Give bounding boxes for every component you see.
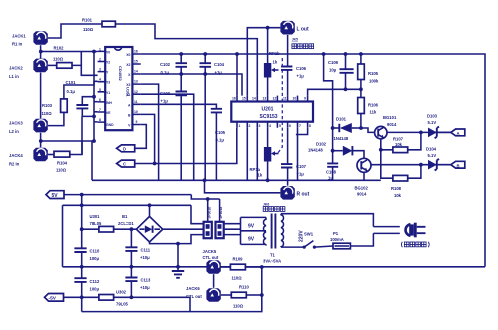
- svg-text:100mA: 100mA: [330, 237, 344, 242]
- svg-text:CTL out: CTL out: [186, 294, 202, 299]
- node RP1a bottom: [266, 178, 270, 182]
- svg-text:9V: 9V: [248, 237, 255, 243]
- wire jack6 to R110: [221, 294, 232, 296]
- U101 pin names left: [106, 50, 114, 127]
- wire jack5 to R109: [221, 266, 231, 268]
- svg-text:C107: C107: [296, 164, 307, 169]
- wire BG101 emitter down to R107: [381, 139, 388, 150]
- net tag B: [451, 161, 465, 168]
- node ground rail cross: [176, 265, 180, 269]
- svg-text:R108: R108: [391, 186, 402, 191]
- svg-text:R106: R106: [368, 103, 379, 108]
- wire frame down to connector top pin: [191, 205, 204, 223]
- resistor R102: [57, 63, 72, 69]
- svg-text:11: 11: [134, 100, 138, 104]
- svg-text:10μ: 10μ: [329, 68, 337, 73]
- svg-text:3: 3: [259, 124, 261, 128]
- svg-text:BG102: BG102: [355, 186, 369, 191]
- svg-text:10: 10: [134, 110, 138, 114]
- transformer T1 core: [272, 214, 276, 249]
- zener D103 5.1V: [427, 114, 451, 139]
- svg-text:10: 10: [293, 97, 297, 101]
- svg-text:110Ω: 110Ω: [83, 27, 94, 32]
- wire C104 column down: [204, 74, 206, 180]
- capacitor C104: [200, 54, 225, 75]
- capacitor C110: [74, 248, 100, 261]
- wire jack1 to R101: [48, 24, 102, 38]
- svg-text:5: 5: [279, 124, 281, 128]
- wire top rail to U201 pin16: [236, 54, 238, 96]
- node B row junction: [419, 163, 423, 167]
- node C104 top: [203, 52, 207, 56]
- net tag D: [117, 145, 135, 152]
- wire primary bottom to switch: [281, 246, 304, 248]
- wire psu frame left edge: [62, 205, 64, 266]
- svg-text:X2: X2: [126, 63, 130, 67]
- wire bottom rail full: [63, 266, 486, 268]
- wire BG102 collector to B row: [371, 164, 451, 166]
- node ground tap: [176, 242, 180, 246]
- U201 top pin numbers: [232, 97, 306, 101]
- svg-text:A: A: [457, 131, 460, 136]
- svg-text:L2 in: L2 in: [9, 129, 19, 134]
- wire top rail +V: [141, 54, 485, 267]
- wire branch up to U101 pin10: [141, 114, 155, 163]
- svg-text:9V: 9V: [248, 224, 255, 230]
- resistor R110: [231, 285, 261, 309]
- capacitor C107: [281, 128, 307, 186]
- svg-text:R out: R out: [297, 192, 310, 198]
- svg-text:0.1μ: 0.1μ: [67, 89, 76, 94]
- svg-text:R107: R107: [393, 137, 404, 142]
- wire U201 pin8 stub down: [296, 128, 308, 135]
- svg-text:R104: R104: [57, 161, 68, 166]
- U201 top pin stubs: [237, 96, 308, 102]
- wire drop to JP301a: [219, 199, 221, 222]
- U101 pin numbers right: [134, 50, 138, 125]
- svg-text:X0: X0: [126, 53, 130, 57]
- svg-text:16: 16: [232, 97, 236, 101]
- capacitor C108: [326, 163, 338, 180]
- potentiometer RP1b: [264, 28, 280, 96]
- svg-text:5: 5: [99, 88, 101, 92]
- resistor R108: [391, 165, 421, 198]
- svg-text:100μ: 100μ: [90, 287, 100, 292]
- svg-text:L1 in: L1 in: [9, 74, 19, 79]
- plug symbol: [406, 223, 426, 238]
- transistor BG101 9014: [375, 115, 397, 139]
- svg-text:2CL=D1: 2CL=D1: [118, 221, 134, 226]
- svg-text:X3: X3: [126, 83, 130, 87]
- svg-text:JACK6: JACK6: [186, 286, 200, 291]
- svg-text:CD4052: CD4052: [118, 66, 123, 81]
- wire fuse to plug column: [350, 233, 373, 246]
- svg-text:110Ω: 110Ω: [56, 168, 67, 173]
- svg-text:JP301b: JP301b: [207, 207, 211, 219]
- svg-text:R105: R105: [368, 71, 379, 76]
- svg-text:R2 in: R2 in: [9, 162, 20, 167]
- svg-text:GND: GND: [106, 123, 114, 127]
- wire node to U101 pin1: [41, 51, 98, 53]
- svg-text:T1: T1: [270, 253, 276, 258]
- svg-text:8: 8: [99, 118, 101, 122]
- svg-text:C113: C113: [141, 278, 151, 283]
- diode D102 1N4148: [308, 142, 364, 159]
- wire R104 up to node 141: [70, 141, 82, 155]
- node column94 joints: [92, 50, 96, 54]
- svg-text:Y3: Y3: [106, 81, 110, 85]
- U101 pin numbers left: [99, 47, 101, 122]
- svg-text:R110: R110: [239, 285, 249, 290]
- svg-text:C111: C111: [141, 248, 151, 253]
- capacitor C111: [125, 247, 150, 260]
- svg-text:C106: C106: [296, 66, 307, 71]
- svg-text:0.1μ: 0.1μ: [161, 70, 170, 75]
- node rail col81: [80, 265, 84, 269]
- node R110 out: [260, 293, 264, 297]
- svg-text:JACK5: JACK5: [203, 249, 217, 254]
- svg-text:2: 2: [99, 58, 101, 62]
- transformer T1 primary winding: [281, 214, 283, 247]
- svg-text:1: 1: [99, 47, 101, 51]
- svg-text:JK5: JK5: [292, 38, 298, 42]
- svg-text:8: 8: [309, 124, 311, 128]
- bridge rectifier B1: [118, 214, 163, 242]
- svg-text:1N4148: 1N4148: [334, 136, 349, 141]
- wire L out left: [247, 28, 280, 96]
- wire transformer secondary box: [241, 217, 267, 244]
- svg-text:Y1: Y1: [106, 91, 110, 95]
- svg-text:CTL out: CTL out: [203, 255, 219, 260]
- node jack ground bus 1: [39, 50, 43, 54]
- wire rail to D101 column: [324, 54, 333, 163]
- jack J5 CTL out: [206, 260, 220, 274]
- svg-text:1k: 1k: [273, 60, 278, 65]
- wire column 81.7: [81, 195, 83, 312]
- svg-text:+1μ: +1μ: [215, 70, 223, 75]
- svg-text:RP1a: RP1a: [250, 167, 261, 172]
- wire R108 feed: [381, 150, 393, 178]
- svg-text:-5V: -5V: [49, 296, 57, 302]
- wire U201 pin7 down to rail: [297, 128, 299, 181]
- wire +5V step to connector tops: [191, 195, 219, 199]
- jack JK6 R out: [280, 186, 294, 200]
- svg-text:Y0: Y0: [106, 50, 110, 54]
- svg-text:3VA~5VA: 3VA~5VA: [263, 259, 281, 264]
- svg-text:JACK1: JACK1: [12, 34, 26, 39]
- U201 bottom pin numbers: [239, 124, 312, 128]
- svg-text:1μ: 1μ: [328, 176, 333, 181]
- svg-text:R103: R103: [42, 103, 53, 108]
- wire bridge top to frame: [149, 205, 151, 216]
- node divider mid: [359, 87, 363, 91]
- label JK5 chinese: [292, 44, 314, 49]
- wire jack1 sleeve bus: [40, 45, 42, 58]
- svg-text:B: B: [457, 163, 460, 168]
- svg-text:4: 4: [99, 78, 101, 82]
- U101 right pin stubs: [132, 54, 140, 125]
- svg-text:D102: D102: [316, 142, 327, 147]
- net tag C: [117, 160, 135, 167]
- IC U201 SC9153: [231, 102, 313, 122]
- resistor R107: [388, 132, 421, 152]
- wire R101 to U201 pin: [115, 24, 257, 96]
- node R109 out: [260, 265, 264, 269]
- node jack ground bus 2: [39, 139, 43, 143]
- resistor R101: [102, 21, 115, 27]
- U201 bottom pin stubs: [237, 122, 308, 128]
- svg-text:+1μ: +1μ: [297, 74, 305, 79]
- svg-text:5.1V: 5.1V: [428, 153, 437, 158]
- resistor R106 vertical: [358, 89, 379, 129]
- svg-text:15: 15: [242, 97, 246, 101]
- svg-text:11: 11: [283, 97, 287, 101]
- svg-text:110Ω: 110Ω: [53, 57, 64, 62]
- jack J2 L1 in: [33, 59, 47, 73]
- capacitor C101: [66, 80, 95, 155]
- node A row junction: [419, 131, 423, 135]
- node rail col131: [130, 265, 134, 269]
- svg-text:12: 12: [273, 97, 277, 101]
- svg-text:C112: C112: [90, 279, 100, 284]
- svg-text:78L05: 78L05: [90, 221, 103, 226]
- svg-text:4: 4: [269, 124, 271, 128]
- node frame col81: [80, 203, 84, 207]
- svg-text:+1μ: +1μ: [297, 172, 305, 177]
- potentiometer RP1a: [250, 128, 279, 181]
- wire jack5 to jack6 bus: [213, 274, 215, 288]
- node rail taps right: [322, 52, 326, 56]
- power flag +5V: [46, 191, 191, 199]
- diode D101 1N4148: [333, 117, 361, 142]
- IC U101 CD4052: [105, 47, 132, 130]
- wire R out left: [205, 180, 281, 193]
- node C102 top: [179, 52, 183, 56]
- connector JP301a: [216, 207, 224, 239]
- node C109 bottom: [344, 87, 348, 91]
- capacitor C102: [160, 54, 187, 75]
- svg-text:1: 1: [239, 124, 241, 128]
- node col81 minus5: [80, 295, 84, 299]
- resistor R103 vertical: [61, 99, 68, 113]
- wire U101 pin14 row: [141, 74, 242, 96]
- svg-text:JACK2: JACK2: [9, 66, 23, 71]
- wire jack4 to R104: [48, 154, 54, 156]
- wire stub above R102 junction: [80, 52, 82, 66]
- svg-text:+10μ: +10μ: [140, 255, 150, 260]
- svg-text:9: 9: [304, 97, 306, 101]
- svg-text:P1: P1: [333, 231, 339, 236]
- gang dashed line RP1b-RP1a: [278, 58, 283, 154]
- svg-text:110Ω: 110Ω: [233, 304, 244, 309]
- wire U101 pin12 row down: [141, 94, 194, 180]
- label JK6 chinese: [263, 207, 285, 212]
- svg-text:1N4148: 1N4148: [308, 148, 323, 153]
- node D101 column: [331, 126, 335, 130]
- svg-text:10k: 10k: [394, 193, 402, 198]
- svg-text:C110: C110: [90, 249, 100, 254]
- svg-text:3: 3: [99, 68, 101, 72]
- svg-text:14: 14: [252, 97, 256, 101]
- wire L out jack stem: [287, 35, 289, 67]
- svg-text:SC9153: SC9153: [260, 114, 278, 120]
- wire R103 top to U101 pin4 row: [64, 81, 98, 99]
- wire BG101 collector to A row: [387, 131, 451, 133]
- svg-text:9014: 9014: [387, 122, 397, 127]
- power flag -5V: [45, 294, 99, 302]
- svg-text:10k: 10k: [395, 142, 403, 147]
- svg-text:D103: D103: [427, 114, 438, 119]
- svg-text:BG101: BG101: [383, 115, 397, 120]
- svg-text:79L05: 79L05: [116, 302, 129, 307]
- wire R103 bottom to jack3: [48, 112, 64, 125]
- capacitor C112: [74, 278, 100, 291]
- wire jack2 sleeve bus: [40, 73, 42, 119]
- node C103 top: [179, 72, 183, 76]
- wire U201 pin3 down to rail: [256, 128, 258, 181]
- U101 left pin stubs: [98, 51, 106, 122]
- jack J4 R2 in: [33, 148, 47, 162]
- wire bridge right to connector: [163, 228, 204, 230]
- wire U101 pin11 row to C105: [141, 104, 217, 109]
- wire jack2 to R102: [48, 64, 57, 66]
- node L out branch: [266, 26, 270, 30]
- svg-text:R102: R102: [54, 46, 65, 51]
- svg-text:C109: C109: [328, 60, 339, 65]
- svg-text:R101: R101: [82, 18, 93, 23]
- svg-text:B1: B1: [122, 214, 128, 219]
- wire jack3 sleeve bus: [40, 133, 42, 148]
- jack J1 R1 in: [33, 31, 47, 45]
- svg-text:C104: C104: [214, 62, 225, 67]
- U101 pin names right: [126, 53, 131, 128]
- svg-text:+1μ: +1μ: [161, 99, 169, 104]
- svg-text:6: 6: [99, 98, 101, 102]
- svg-text:C101: C101: [66, 80, 77, 85]
- zener D104 5.1V: [426, 147, 451, 171]
- svg-text:1k: 1k: [258, 173, 263, 178]
- svg-text:9: 9: [136, 120, 138, 124]
- svg-text:+10μ: +10μ: [140, 285, 150, 290]
- wire switch to fuse: [314, 246, 333, 247]
- svg-text:C108: C108: [326, 170, 337, 175]
- wire plug feeders: [373, 227, 399, 234]
- svg-text:16: 16: [134, 50, 138, 54]
- wire column 131.4: [130, 229, 132, 297]
- svg-text:U201: U201: [262, 107, 274, 113]
- node bridge left cap: [130, 227, 134, 231]
- svg-text:7: 7: [299, 124, 301, 128]
- svg-text:7: 7: [99, 108, 101, 112]
- svg-text:R109: R109: [233, 257, 244, 262]
- svg-text:D: D: [123, 146, 126, 151]
- regulator U302 79L05: [99, 290, 190, 312]
- node D102 column: [331, 149, 335, 153]
- node R108 feed: [379, 148, 383, 152]
- transformer T1 secondary winding: [264, 217, 266, 244]
- wire D tag to U101 pin16 area: [135, 125, 147, 149]
- capacitor C106: [281, 66, 307, 96]
- capacitor C105: [211, 109, 226, 181]
- wire bottom return rail: [82, 267, 262, 312]
- wire JP301a right taps to transformer: [224, 224, 241, 235]
- svg-text:110Ω: 110Ω: [42, 111, 53, 116]
- svg-text:Y2: Y2: [106, 61, 110, 65]
- svg-text:5V: 5V: [52, 193, 59, 199]
- wire psu frame top edge: [63, 204, 192, 206]
- wire BG102 emitter down: [363, 172, 365, 180]
- svg-text:RP1b: RP1b: [269, 51, 280, 56]
- wire base row BG101: [361, 128, 375, 132]
- node C104 bottom: [203, 72, 207, 76]
- capacitor C103: [160, 74, 187, 180]
- svg-text:L out: L out: [297, 27, 309, 33]
- label plug chinese: [402, 242, 430, 247]
- regulator U301 78L05: [82, 214, 137, 232]
- wire U101 pin13 row down: [141, 84, 159, 180]
- svg-text:100k: 100k: [369, 79, 379, 84]
- svg-text:14: 14: [134, 70, 138, 74]
- svg-text:D101: D101: [336, 117, 347, 122]
- wire U201 pin9 to divider mid: [308, 89, 361, 95]
- wire drop to JP301b: [207, 199, 209, 222]
- wire primary top to plug column: [281, 214, 373, 227]
- capacitor C113: [125, 278, 151, 291]
- svg-text:D104: D104: [426, 147, 437, 152]
- svg-text:SW1: SW1: [304, 232, 314, 237]
- svg-text:12: 12: [134, 90, 138, 94]
- svg-text:INH: INH: [106, 101, 112, 105]
- wire bridge bottom to connector: [150, 235, 204, 244]
- switch SW1: [303, 232, 316, 249]
- wire left column x94: [93, 52, 95, 142]
- net tag A: [451, 129, 465, 136]
- transistor BG102 9014: [355, 158, 372, 196]
- resistor R104: [54, 151, 70, 157]
- node col131 minus5: [130, 295, 134, 299]
- svg-text:C: C: [123, 162, 126, 167]
- node R106 to base row: [359, 126, 363, 130]
- wire mid ground rail: [92, 179, 381, 181]
- ground: [172, 244, 184, 278]
- svg-text:9014: 9014: [357, 192, 367, 197]
- svg-text:JACK3: JACK3: [9, 121, 23, 126]
- svg-text:JACK4: JACK4: [9, 153, 23, 158]
- node C branch: [153, 162, 157, 166]
- svg-text:5.1V: 5.1V: [428, 120, 437, 125]
- svg-text:C105: C105: [215, 130, 226, 135]
- resistor R109: [230, 257, 261, 281]
- svg-text:13: 13: [263, 97, 267, 101]
- svg-text:R1 in: R1 in: [12, 42, 23, 47]
- wire node to column 92: [41, 141, 92, 180]
- fuse P1 100mA: [330, 231, 350, 249]
- svg-text:0.1μ: 0.1μ: [216, 138, 225, 143]
- svg-text:110Ω: 110Ω: [232, 276, 243, 281]
- wire U201 pin2 down to rail: [246, 128, 248, 181]
- wire stubs to U101 pins 6,7,8: [94, 102, 98, 122]
- node R out feed: [203, 178, 207, 182]
- jack J3 L2 in: [33, 119, 47, 133]
- svg-text:X1: X1: [126, 93, 130, 97]
- capacitor C109: [328, 54, 354, 89]
- svg-text:2: 2: [249, 124, 251, 128]
- svg-text:13: 13: [134, 80, 138, 84]
- connector JP301b: [204, 207, 212, 239]
- svg-text:VE: VE: [106, 111, 111, 115]
- node +5V at column 81.7: [80, 193, 84, 197]
- svg-text:JP301a: JP301a: [219, 207, 223, 219]
